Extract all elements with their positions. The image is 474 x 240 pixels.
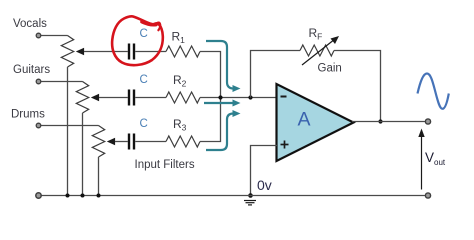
resistor R2 [166, 92, 200, 103]
svg-text:C: C [140, 74, 148, 86]
svg-text:Gain: Gain [318, 63, 342, 75]
ground symbol [244, 201, 256, 205]
svg-text:0v: 0v [257, 177, 272, 193]
capacitor C3 [129, 134, 134, 150]
input terminal Drums [36, 123, 41, 128]
input terminal Vocals [36, 33, 41, 38]
terminal bottom right [425, 193, 430, 198]
sine wave output signal [418, 74, 449, 109]
red annotation circle around C1 [112, 16, 163, 65]
resistor R3 [166, 136, 200, 147]
wire R2 to summing node [200, 97, 221, 99]
svg-text:C: C [140, 118, 148, 130]
resistor R1 [166, 46, 200, 57]
junction non-inverting ground [248, 193, 253, 198]
wire VR1 bottom to ground bus [67, 67, 69, 196]
ground bus wire [39, 195, 429, 197]
feedback wire up from summing node [251, 51, 301, 98]
potentiometer VR1 wiper arrow [76, 48, 84, 55]
op-amp non-inverting pin mark [281, 141, 289, 149]
signal flow arrow input 3 (teal) [206, 110, 241, 150]
wire VR2 bottom to ground bus [82, 113, 84, 196]
wire VR1 wiper to C1 [84, 51, 128, 53]
junction feedback-output [378, 119, 382, 123]
wire VR2 wiper to C2 [99, 97, 128, 99]
potentiometer VR2 [76, 82, 88, 114]
svg-text:Drums: Drums [11, 109, 45, 121]
Vout measurement arrow [418, 129, 424, 190]
wire op-amp output [352, 121, 428, 123]
junction feedback node [248, 95, 252, 99]
wire summing node to op-amp inverting input [221, 97, 278, 99]
svg-text:A: A [298, 109, 311, 131]
wire C2 to R2 [135, 97, 166, 99]
wire R3 to summing node [200, 98, 221, 142]
svg-text:Input Filters: Input Filters [135, 159, 195, 171]
junction VR2-ground [81, 194, 85, 198]
wire op-amp non-inverting input to ground [251, 146, 278, 196]
output terminal Vout top [425, 119, 430, 124]
junction VR1-ground [66, 194, 70, 198]
wire VR3 bottom to ground bus [98, 157, 100, 196]
potentiometer VR2 wiper arrow [91, 94, 99, 101]
potentiometer VR3 [92, 126, 104, 158]
svg-text:Vocals: Vocals [13, 18, 47, 30]
svg-text:C: C [140, 28, 148, 40]
signal flow arrow input 1 (teal) [206, 41, 241, 92]
potentiometer VR3 wiper arrow [107, 138, 115, 145]
wire C1 to R1 [135, 51, 166, 53]
resistor RF variable arrow [302, 36, 339, 65]
wire R1 to summing node [200, 52, 221, 98]
wire Guitars input to VR2 top [41, 81, 83, 83]
op-amp A [277, 84, 354, 161]
potentiometer VR1 [61, 36, 73, 68]
wire Drums input to VR3 top [41, 125, 99, 127]
op-amp inverting pin mark [281, 96, 287, 98]
terminal bottom left [36, 193, 41, 198]
junction summing node [218, 95, 222, 99]
wire VR3 wiper to C3 [115, 141, 128, 143]
resistor RF [300, 45, 334, 56]
capacitor C2 [129, 90, 134, 106]
feedback wire to output [334, 51, 381, 122]
junction VR3-ground [97, 194, 101, 198]
svg-text:Guitars: Guitars [13, 64, 50, 76]
input terminal Guitars [36, 79, 41, 84]
signal flow arrow input 2 (teal) [204, 100, 241, 107]
wire C3 to R3 [135, 141, 166, 143]
capacitor C1 [129, 44, 134, 60]
wire Vocals input to VR1 top [41, 35, 68, 37]
